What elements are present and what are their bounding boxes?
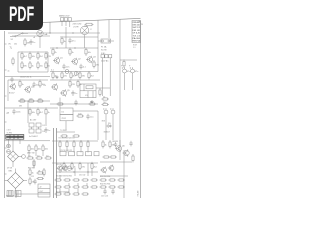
svg-text:1u: 1u — [33, 42, 35, 44]
resistor R18 — [70, 71, 77, 79]
transistor Q9 — [123, 149, 130, 156]
bridge rectifier BR2 — [8, 151, 23, 167]
bridge rectifier BR1 — [5, 169, 28, 195]
value label — [51, 69, 54, 71]
wire — [50, 79, 100, 81]
wire — [96, 87, 110, 89]
wire — [12, 139, 14, 151]
value label — [113, 141, 119, 143]
svg-text:R61 R62: R61 R62 — [28, 167, 35, 169]
svg-text:C15 C16: C15 C16 — [101, 196, 108, 198]
svg-text:330: 330 — [82, 76, 86, 78]
value label — [73, 27, 79, 29]
svg-text:PA-300: PA-300 — [133, 37, 141, 40]
capacitor bank C9 — [60, 150, 99, 156]
value label — [79, 174, 85, 176]
border tick — [5, 43, 7, 45]
value label — [7, 113, 10, 115]
diode D12 — [65, 70, 69, 74]
value label — [73, 23, 82, 25]
svg-text:SHT 1/2: SHT 1/2 — [133, 27, 141, 29]
svg-text:R21 R22 R23 R24 R25: R21 R22 R23 R24 R25 — [59, 138, 75, 140]
wire — [112, 116, 114, 140]
ground bus — [54, 128, 57, 198]
svg-text:CH 11-82: CH 11-82 — [133, 33, 141, 35]
svg-text:100n: 100n — [16, 111, 20, 113]
transistor Q4 — [9, 83, 15, 90]
svg-text:D9 D10: D9 D10 — [56, 164, 62, 166]
value label — [133, 47, 136, 49]
wire — [8, 79, 48, 81]
resistor R20 — [88, 71, 95, 79]
junction — [73, 171, 74, 172]
svg-text:470: 470 — [96, 65, 100, 67]
value label — [104, 131, 110, 133]
resistor R48 — [87, 140, 89, 148]
resistor R53 — [102, 140, 107, 148]
wire — [49, 22, 51, 33]
svg-text:1k: 1k — [64, 41, 66, 43]
diode D11 — [67, 166, 71, 170]
resistor R58 — [29, 168, 34, 176]
resistor R56 — [109, 156, 117, 158]
capacitor C2 — [29, 39, 35, 45]
wire — [52, 140, 98, 142]
svg-text:5W: 5W — [19, 105, 22, 107]
resistor R12 — [52, 48, 57, 56]
wire — [84, 35, 86, 37]
title block — [132, 21, 141, 43]
wire — [97, 33, 99, 72]
resistor R33 — [76, 113, 84, 117]
resistor R15 — [93, 60, 100, 68]
svg-text:REV A: REV A — [133, 40, 141, 43]
capacitor C5 — [79, 64, 86, 70]
wire — [16, 193, 50, 195]
svg-text:100: 100 — [45, 149, 49, 151]
resistor R14 — [85, 48, 91, 56]
resistor R82 — [56, 103, 64, 105]
svg-text:4k7: 4k7 — [73, 76, 77, 78]
wire — [28, 152, 30, 156]
wire — [102, 64, 104, 96]
junction — [74, 47, 75, 48]
junction — [72, 32, 73, 33]
svg-text:Q2: Q2 — [78, 58, 82, 60]
svg-text:1k: 1k — [32, 66, 34, 68]
wire — [102, 58, 104, 64]
svg-text:2k2: 2k2 — [91, 76, 95, 78]
wire — [77, 183, 79, 186]
capacitor C8 — [32, 82, 39, 88]
svg-text:Q5: Q5 — [67, 90, 71, 92]
wire — [50, 71, 98, 73]
svg-text:1k: 1k — [55, 76, 57, 78]
svg-text:DR JK: DR JK — [133, 30, 142, 32]
resistor R69 — [72, 186, 80, 188]
resistor R1 — [61, 37, 66, 45]
schematic border right — [140, 21, 142, 199]
svg-text:1k: 1k — [105, 145, 107, 147]
resistor R9 — [29, 61, 34, 69]
value label — [11, 39, 14, 41]
value label — [20, 77, 32, 79]
svg-text:7812: 7812 — [61, 118, 66, 120]
svg-text:22n: 22n — [36, 84, 39, 86]
wire — [65, 27, 67, 48]
value label — [7, 133, 13, 135]
value label — [100, 183, 110, 185]
resistor R77 — [108, 179, 116, 181]
wire — [109, 64, 111, 96]
svg-text:S1: S1 — [11, 39, 14, 41]
capacitor C3 — [10, 77, 13, 83]
resistor R45 — [66, 140, 68, 148]
resistor R47 — [80, 140, 82, 148]
wire — [74, 168, 76, 176]
svg-text:D4: D4 — [43, 131, 45, 133]
svg-text:47u: 47u — [72, 40, 75, 42]
wire — [97, 20, 99, 33]
svg-text:1k: 1k — [74, 166, 76, 168]
transformer T1 terminal strip — [6, 135, 24, 140]
connector J2 — [38, 184, 50, 197]
resistor R75 — [81, 193, 89, 195]
capacitor C15 — [114, 142, 117, 148]
resistor R74 — [72, 193, 80, 195]
resistor R32 — [45, 108, 50, 116]
svg-text:470: 470 — [72, 84, 76, 86]
resistor R40 — [42, 144, 49, 152]
svg-text:A: A — [34, 36, 36, 39]
resistor R2 — [24, 38, 31, 46]
value label — [8, 70, 10, 72]
svg-text:SCH: SCH — [133, 44, 137, 46]
wire — [100, 175, 128, 177]
svg-text:1k: 1k — [72, 52, 74, 54]
wire — [35, 152, 37, 156]
svg-text:4x 1N4007: 4x 1N4007 — [29, 136, 38, 138]
svg-text:27: 27 — [7, 113, 10, 115]
transistor Q1 — [53, 57, 64, 64]
svg-text:56: 56 — [48, 66, 51, 68]
junction — [56, 47, 57, 48]
value label — [60, 130, 67, 132]
wire — [119, 19, 121, 60]
capacitor C9 — [71, 90, 77, 96]
meter M2 — [80, 26, 88, 34]
resistor R62 — [54, 179, 62, 181]
capacitor C13 — [103, 108, 108, 116]
diode D8 — [22, 155, 26, 159]
value label — [10, 48, 13, 50]
resistor R29 — [99, 88, 101, 96]
svg-text:100: 100 — [31, 149, 35, 151]
resistor R49 — [63, 162, 69, 170]
wire — [100, 161, 132, 163]
resistor R3 — [12, 57, 14, 65]
wire — [123, 150, 125, 198]
svg-text:R54 R55 R56: R54 R55 R56 — [100, 183, 110, 185]
capacitor C11 — [44, 127, 50, 133]
capacitor C12 — [86, 114, 93, 120]
resistor R6 — [37, 52, 44, 60]
resistor R78 — [117, 179, 125, 181]
schematic border left — [4, 31, 6, 198]
svg-text:Q6: Q6 — [122, 145, 126, 147]
capacitor C7 — [130, 67, 138, 75]
svg-text:10n: 10n — [66, 66, 69, 68]
resistor R44 — [59, 140, 61, 148]
svg-text:F1 5A: F1 5A — [101, 45, 107, 48]
wire — [57, 131, 76, 133]
relay K1 — [80, 84, 96, 98]
resistor R17 — [61, 71, 68, 79]
svg-text:7L: 7L — [10, 48, 13, 50]
transistor Q6 — [51, 83, 58, 90]
wire — [18, 51, 48, 53]
wire — [18, 71, 48, 73]
svg-text:35V: 35V — [102, 121, 106, 123]
resistor R52 — [91, 162, 98, 170]
wire — [108, 20, 110, 38]
value label — [9, 93, 15, 95]
svg-text:47u: 47u — [127, 71, 130, 73]
fuse F0 — [85, 23, 94, 26]
svg-text:BR1: BR1 — [9, 170, 13, 172]
resistor R81 — [117, 186, 125, 188]
junction — [59, 171, 60, 172]
resistor R4 — [21, 52, 28, 60]
wire — [59, 148, 61, 152]
svg-text:PA-300: PA-300 — [137, 191, 140, 197]
meter M1 — [37, 30, 43, 36]
svg-text:240V AC: 240V AC — [101, 59, 109, 62]
connector J4 — [15, 191, 21, 197]
wire — [59, 98, 61, 108]
svg-text:330: 330 — [112, 145, 116, 147]
svg-text:230V 50Hz: 230V 50Hz — [73, 23, 82, 25]
svg-text:230: 230 — [14, 44, 17, 46]
wire — [73, 110, 98, 112]
svg-text:J2: J2 — [39, 187, 41, 189]
connector J1 — [61, 18, 72, 27]
svg-text:L N PE: L N PE — [73, 27, 79, 29]
wire — [87, 163, 89, 176]
transistor Q11 — [61, 165, 67, 171]
resistor R7 — [45, 52, 52, 60]
value label — [29, 136, 38, 138]
value label — [27, 152, 35, 154]
resistor R84 — [33, 159, 35, 167]
value label — [28, 167, 35, 169]
capacitor C17 — [103, 189, 106, 195]
wire — [68, 189, 70, 193]
border tick — [5, 147, 7, 149]
svg-text:2k: 2k — [55, 52, 57, 54]
svg-text:10k: 10k — [32, 112, 35, 114]
svg-text:C9 C10 C11 C12: C9 C10 C11 C12 — [60, 150, 72, 152]
svg-text:R41 R42 R43 R44: R41 R42 R43 R44 — [56, 191, 69, 193]
value label — [129, 64, 131, 67]
svg-text:470: 470 — [82, 166, 86, 168]
svg-text:1n: 1n — [48, 130, 50, 132]
value label — [7, 168, 12, 170]
value label — [137, 191, 140, 197]
value label — [138, 21, 140, 23]
resistor R30 — [29, 108, 35, 116]
capacitor C6 — [122, 67, 130, 75]
resistor R83 — [88, 101, 96, 105]
value label — [84, 25, 89, 28]
transistor Q13 — [108, 165, 114, 172]
resistor R73 — [63, 193, 71, 195]
wire — [59, 175, 61, 179]
svg-text:1k: 1k — [48, 112, 50, 114]
resistor R39 — [35, 144, 42, 152]
svg-text:47u: 47u — [135, 71, 138, 73]
border tick — [5, 173, 7, 175]
svg-text:2k2: 2k2 — [94, 166, 98, 168]
value label — [121, 64, 123, 67]
resistor R10 — [37, 61, 43, 69]
diode D7 — [7, 150, 11, 154]
svg-text:0.1: 0.1 — [83, 66, 87, 68]
value label — [101, 196, 108, 198]
capacitor C16 — [129, 141, 132, 147]
svg-text:DWG 4412: DWG 4412 — [133, 25, 141, 27]
svg-text:C31 C32: C31 C32 — [79, 174, 85, 176]
svg-text:10k 4k7 2k2 1k: 10k 4k7 2k2 1k — [20, 77, 32, 79]
wire — [39, 37, 41, 48]
svg-text:78: 78 — [141, 24, 143, 26]
capacitor C19 — [74, 100, 77, 106]
capacitor C4 — [62, 64, 69, 70]
value label — [44, 33, 48, 36]
svg-text:D1: D1 — [43, 125, 45, 127]
resistor R85 — [43, 168, 45, 176]
wire — [56, 171, 98, 173]
resistor R31 — [37, 108, 44, 116]
svg-text:6V: 6V — [44, 85, 47, 87]
wire — [59, 189, 61, 193]
svg-text:1 3 8: 1 3 8 — [7, 130, 11, 132]
svg-text:V: V — [90, 29, 92, 31]
value label — [133, 44, 137, 46]
resistor R22 — [19, 80, 24, 88]
wire — [68, 183, 70, 186]
resistor R46 — [73, 140, 75, 148]
resistor R24 — [18, 98, 26, 102]
resistor R72 — [54, 193, 62, 195]
value label — [102, 121, 106, 123]
resistor R36 — [60, 135, 68, 137]
wire — [77, 189, 79, 193]
resistor R76 — [99, 179, 107, 181]
transistor Q10 — [57, 165, 63, 171]
svg-text:D7 D8: D7 D8 — [7, 168, 12, 170]
resistor R54 — [109, 140, 116, 148]
resistor R21 — [123, 60, 125, 68]
wire — [19, 139, 21, 144]
ground — [55, 76, 58, 79]
wire — [45, 116, 47, 126]
resistor R26 — [36, 98, 44, 102]
svg-text:2k2: 2k2 — [40, 56, 44, 58]
resistor R35 — [101, 102, 109, 106]
value label — [30, 119, 37, 122]
svg-text:16: 16 — [138, 21, 140, 23]
svg-text:100: 100 — [38, 149, 42, 151]
wire — [27, 101, 29, 123]
resistor R8 — [21, 61, 27, 69]
transistor Q5 — [24, 86, 35, 93]
value label — [101, 53, 106, 55]
wire — [91, 170, 93, 176]
diode D1 — [106, 123, 112, 128]
resistor R38 — [28, 144, 35, 152]
svg-text:MAINS 230V: MAINS 230V — [59, 15, 70, 18]
svg-text:SLOW: SLOW — [101, 50, 107, 52]
resistor R60 — [36, 170, 44, 174]
svg-text:10k: 10k — [32, 56, 35, 58]
resistor R5 — [29, 52, 35, 60]
wire — [124, 75, 126, 90]
value label — [34, 36, 36, 39]
svg-text:R51 R52 R53: R51 R52 R53 — [100, 176, 110, 178]
wire — [5, 107, 59, 109]
resistor R79 — [99, 186, 107, 188]
resistor R71 — [90, 186, 98, 188]
value label — [101, 45, 107, 48]
resistor R16 — [52, 71, 57, 79]
resistor R34 — [101, 96, 109, 100]
value label — [56, 176, 72, 178]
svg-text:+: + — [129, 64, 131, 67]
diode D13 — [74, 72, 78, 76]
svg-text:BC557: BC557 — [9, 93, 15, 95]
wire — [86, 183, 88, 186]
value label — [31, 176, 34, 178]
resistor R61 — [36, 177, 44, 179]
value label — [90, 29, 92, 31]
svg-text:1k: 1k — [103, 96, 105, 98]
resistor R64 — [72, 179, 80, 181]
border tick — [5, 69, 7, 71]
resistor R59 — [29, 177, 36, 185]
wire — [109, 58, 111, 64]
value label — [56, 191, 69, 193]
transistor Q8 — [115, 145, 126, 152]
PDF badge — [0, 0, 43, 30]
resistor R43 — [44, 155, 52, 159]
svg-text:68k: 68k — [24, 66, 27, 68]
resistor R19 — [79, 71, 86, 79]
svg-text:1N4007: 1N4007 — [104, 131, 110, 133]
svg-text:MAINS TR: MAINS TR — [6, 194, 15, 197]
svg-text:10k: 10k — [88, 52, 91, 54]
resistor R66 — [90, 179, 98, 181]
value label — [101, 50, 107, 52]
svg-text:0R47 5W: 0R47 5W — [27, 152, 35, 154]
wire — [87, 148, 89, 152]
svg-text:AC 18V: AC 18V — [30, 119, 37, 122]
resistor R37 — [72, 135, 80, 137]
wire — [5, 140, 51, 142]
transistor Q12 — [100, 167, 106, 174]
capacitor C10 — [12, 109, 20, 115]
wire — [7, 80, 9, 101]
